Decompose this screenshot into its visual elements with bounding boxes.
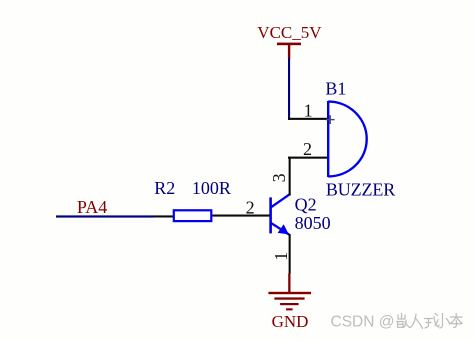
wire PA4 <box>56 215 154 217</box>
plus mark on buzzer <box>326 115 335 124</box>
svg-text:PA4: PA4 <box>77 197 107 217</box>
glyph ru <box>411 314 423 329</box>
wire VCC to buzzer pin 1 <box>288 58 290 120</box>
glyph xiao <box>435 314 450 328</box>
base pin wire <box>212 215 269 217</box>
buzzer B1 body <box>328 101 367 177</box>
svg-text:GND: GND <box>272 312 309 331</box>
power port VCC_5V <box>257 23 322 58</box>
svg-text:R2: R2 <box>154 178 175 198</box>
svg-text:CSDN @: CSDN @ <box>331 314 395 331</box>
svg-text:B1: B1 <box>325 79 346 99</box>
power stub to ground <box>288 274 290 294</box>
transistor Q2 <box>269 194 290 234</box>
svg-text:Q2: Q2 <box>295 194 317 214</box>
svg-text:2: 2 <box>303 139 312 159</box>
ground symbol <box>268 292 311 311</box>
glyph li <box>451 314 463 328</box>
resistor R2 body <box>174 210 212 221</box>
svg-text:8050: 8050 <box>295 213 331 233</box>
svg-text:2: 2 <box>246 198 255 218</box>
svg-text:3: 3 <box>269 173 289 182</box>
svg-text:BUZZER: BUZZER <box>326 180 395 200</box>
watermark CJK glyphs <box>397 314 462 329</box>
svg-text:VCC_5V: VCC_5V <box>257 23 322 42</box>
svg-text:1: 1 <box>271 252 291 261</box>
svg-text:100R: 100R <box>192 178 231 198</box>
buzzer pin 1 wire <box>288 118 329 120</box>
glyph qian <box>397 314 410 328</box>
collector wire <box>289 194 291 196</box>
emitter wire <box>289 234 291 274</box>
glyph shi <box>425 314 440 329</box>
resistor left pin <box>154 215 174 217</box>
svg-text:1: 1 <box>304 101 313 121</box>
buzzer pin 2 wire <box>288 157 329 159</box>
wire buzzer pin2 to collector <box>289 157 291 196</box>
